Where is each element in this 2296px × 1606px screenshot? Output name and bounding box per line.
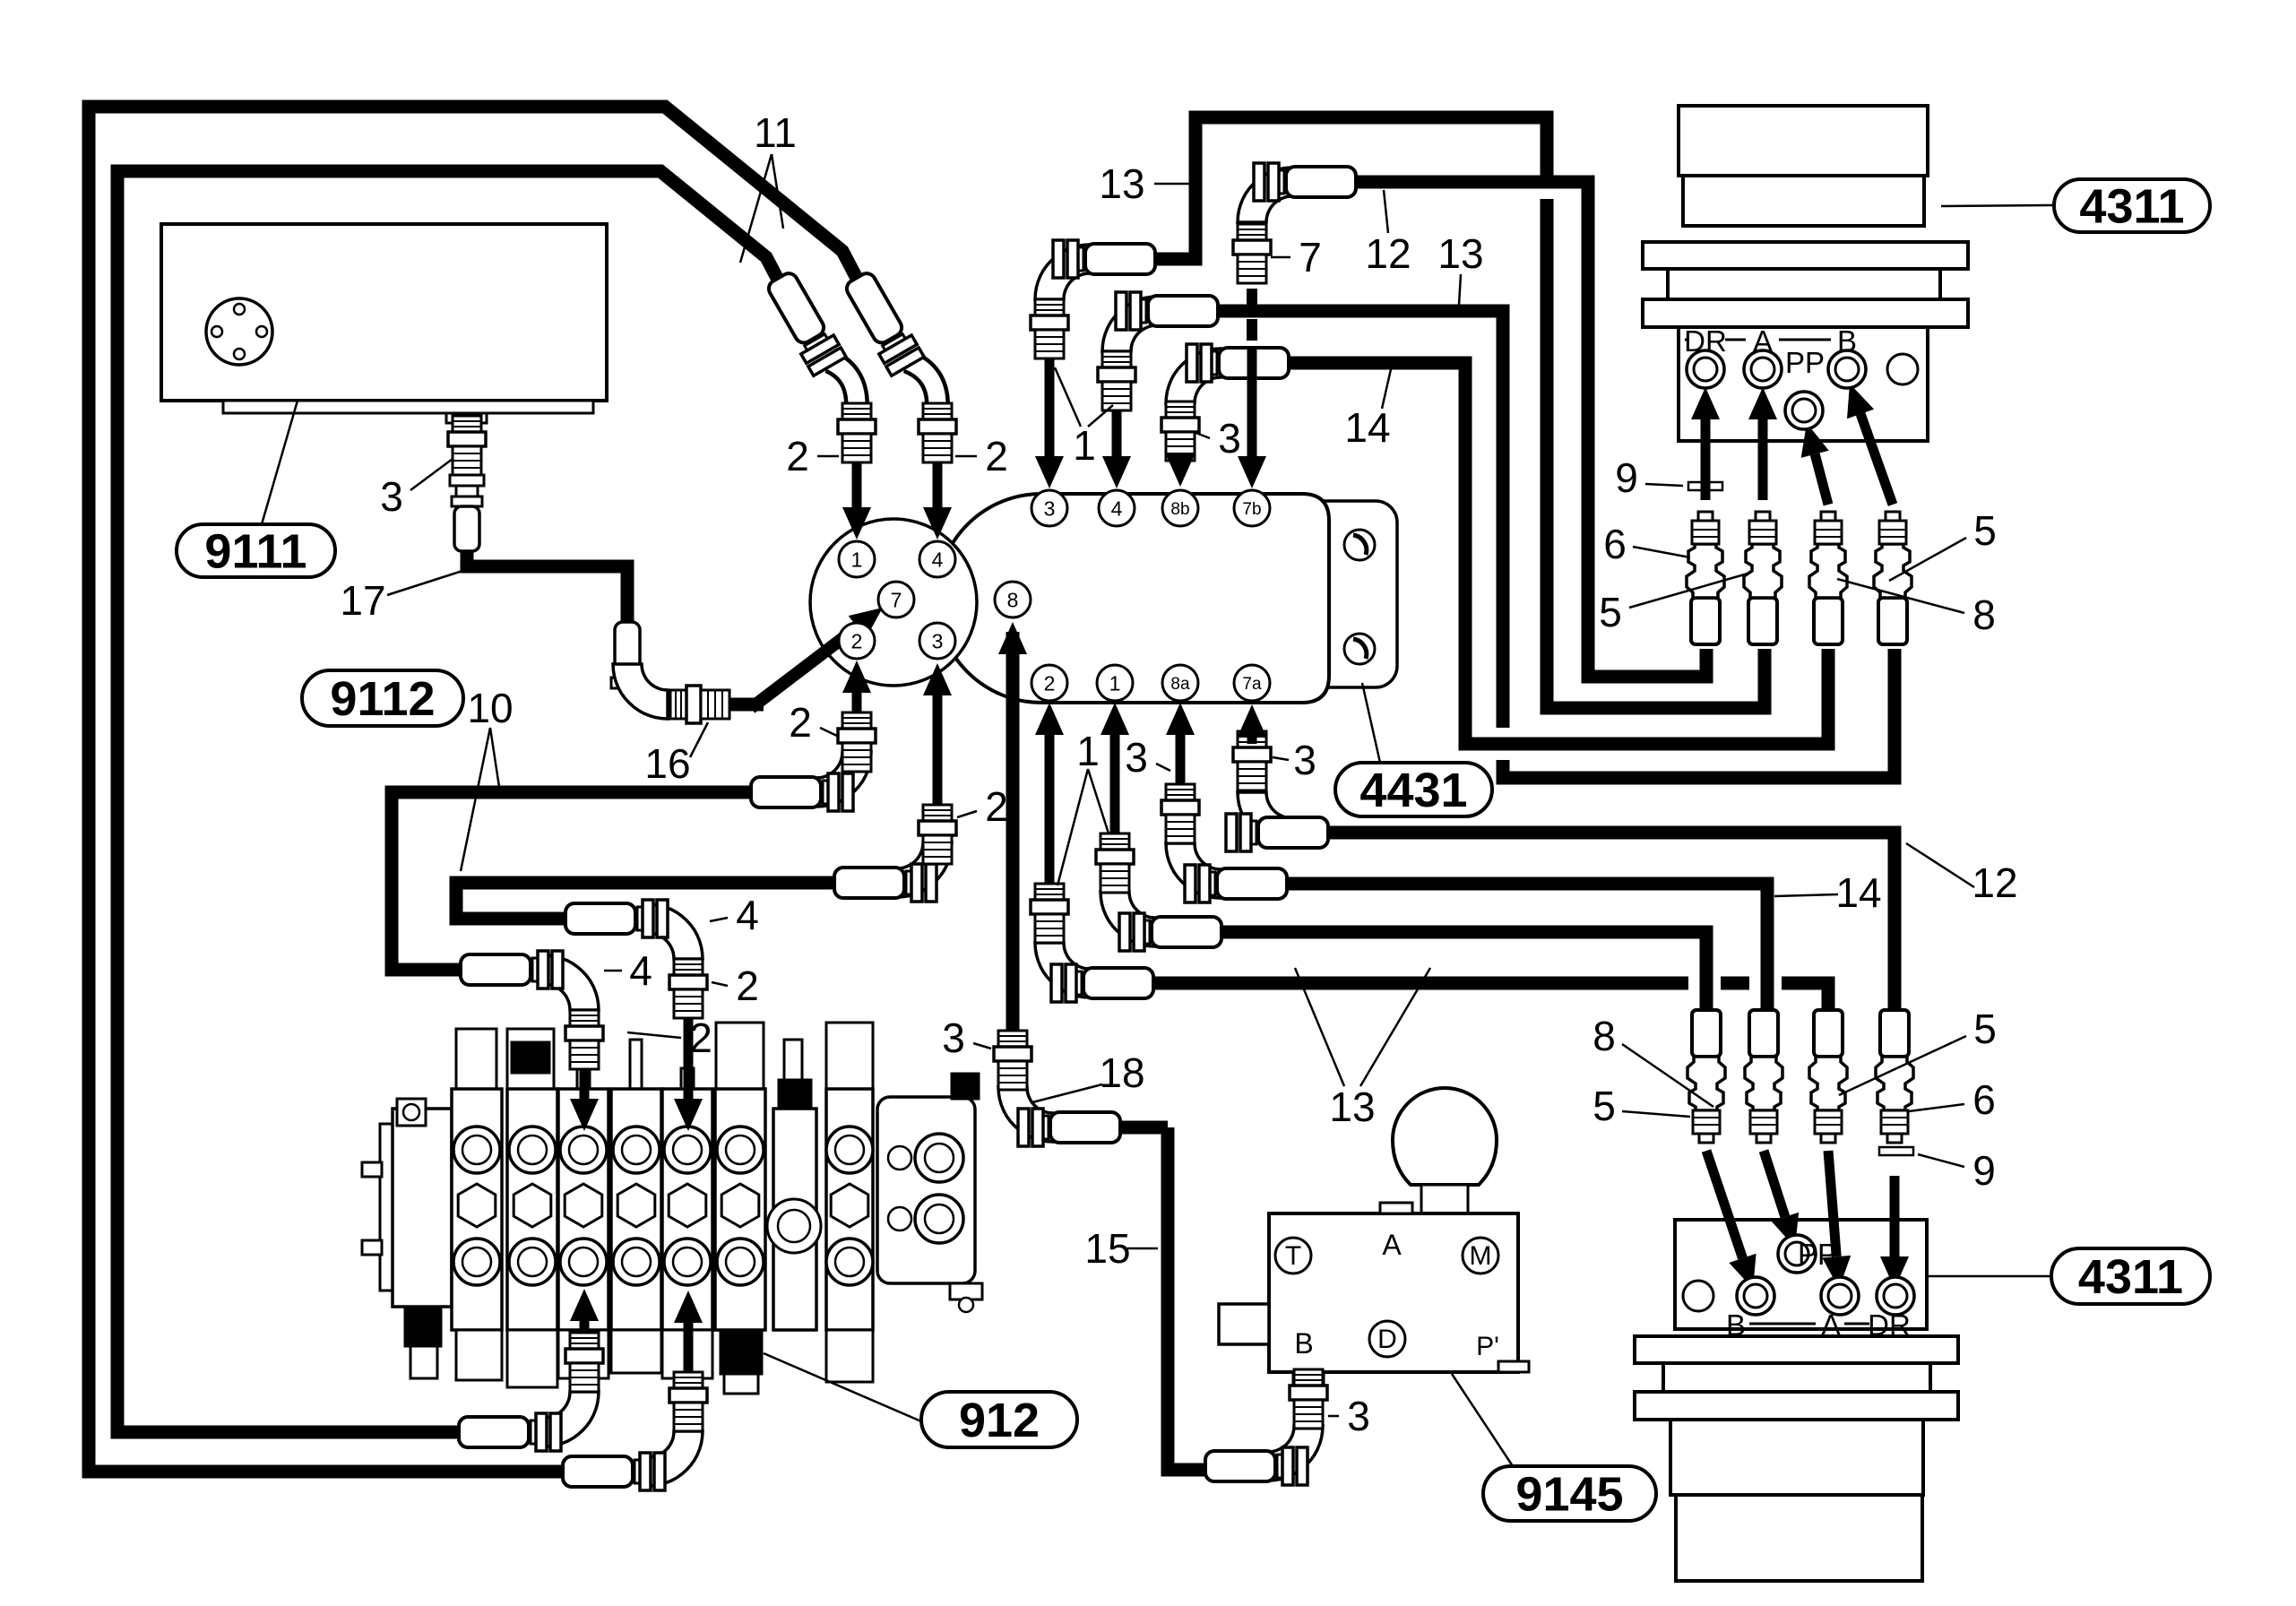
svg-text:13: 13	[1437, 230, 1483, 277]
svg-text:8: 8	[1007, 588, 1019, 611]
svg-text:9111: 9111	[204, 525, 306, 579]
svg-text:16: 16	[644, 740, 690, 787]
svg-text:3: 3	[380, 473, 403, 520]
svg-text:2: 2	[789, 699, 812, 746]
svg-text:8: 8	[1972, 591, 1996, 638]
svg-text:4311: 4311	[2079, 180, 2184, 234]
svg-text:15: 15	[1084, 1225, 1130, 1272]
svg-text:17: 17	[340, 577, 385, 624]
svg-text:18: 18	[1099, 1049, 1144, 1096]
svg-text:1: 1	[1073, 422, 1096, 469]
svg-text:8b: 8b	[1170, 500, 1189, 519]
svg-text:2: 2	[851, 629, 863, 652]
svg-text:5: 5	[1593, 1083, 1616, 1129]
svg-text:4: 4	[736, 892, 759, 938]
svg-text:2: 2	[786, 433, 809, 479]
svg-text:DR: DR	[1868, 1308, 1911, 1342]
svg-text:2: 2	[689, 1015, 712, 1061]
svg-text:912: 912	[959, 1394, 1040, 1447]
svg-text:M: M	[1470, 1241, 1492, 1271]
svg-text:2: 2	[1044, 671, 1056, 695]
svg-text:9112: 9112	[330, 672, 435, 726]
svg-text:4: 4	[932, 548, 944, 571]
svg-text:7b: 7b	[1242, 500, 1261, 519]
svg-text:3: 3	[1125, 734, 1148, 781]
svg-text:14: 14	[1835, 869, 1881, 916]
svg-text:4311: 4311	[2078, 1250, 2183, 1304]
svg-text:3: 3	[1044, 496, 1056, 520]
svg-text:PP: PP	[1798, 1238, 1837, 1271]
svg-text:3: 3	[1347, 1393, 1370, 1439]
svg-text:2: 2	[985, 433, 1008, 479]
svg-text:6: 6	[1972, 1076, 1996, 1123]
svg-text:6: 6	[1603, 521, 1627, 567]
svg-text:9: 9	[1615, 454, 1638, 501]
svg-text:2: 2	[736, 963, 759, 1009]
svg-text:4: 4	[629, 947, 652, 994]
svg-text:7: 7	[1299, 234, 1322, 281]
svg-text:A: A	[1753, 324, 1773, 358]
svg-text:PP: PP	[1785, 346, 1825, 379]
svg-text:B: B	[1837, 324, 1857, 358]
svg-text:5: 5	[1973, 507, 1997, 554]
svg-text:T: T	[1285, 1241, 1301, 1271]
svg-text:3: 3	[1218, 415, 1241, 462]
svg-text:DR: DR	[1684, 324, 1727, 358]
svg-text:11: 11	[754, 109, 797, 156]
svg-text:13: 13	[1329, 1084, 1375, 1130]
svg-text:7: 7	[891, 588, 902, 611]
svg-text:12: 12	[1365, 230, 1411, 277]
svg-text:2: 2	[985, 783, 1008, 830]
svg-text:P': P'	[1476, 1332, 1499, 1361]
svg-text:9: 9	[1972, 1147, 1996, 1194]
svg-text:1: 1	[1109, 671, 1121, 695]
svg-text:9145: 9145	[1515, 1468, 1623, 1522]
svg-text:B: B	[1294, 1327, 1313, 1360]
svg-text:12: 12	[1972, 859, 2017, 906]
svg-text:3: 3	[932, 629, 944, 652]
svg-text:8a: 8a	[1170, 675, 1190, 694]
svg-text:7a: 7a	[1242, 675, 1262, 694]
svg-text:14: 14	[1344, 404, 1390, 451]
svg-text:1: 1	[851, 548, 863, 571]
svg-text:D: D	[1377, 1325, 1397, 1354]
svg-text:4: 4	[1111, 496, 1123, 520]
svg-text:13: 13	[1099, 160, 1144, 207]
svg-text:B: B	[1726, 1308, 1746, 1342]
svg-text:A: A	[1821, 1308, 1841, 1342]
svg-text:1: 1	[1076, 728, 1100, 774]
svg-text:4431: 4431	[1359, 764, 1467, 817]
svg-text:8: 8	[1593, 1013, 1616, 1059]
svg-text:5: 5	[1599, 589, 1622, 635]
svg-text:3: 3	[1293, 737, 1316, 783]
svg-text:10: 10	[467, 685, 513, 731]
svg-text:5: 5	[1973, 1006, 1997, 1052]
svg-text:A: A	[1382, 1229, 1402, 1261]
svg-text:3: 3	[942, 1015, 965, 1061]
